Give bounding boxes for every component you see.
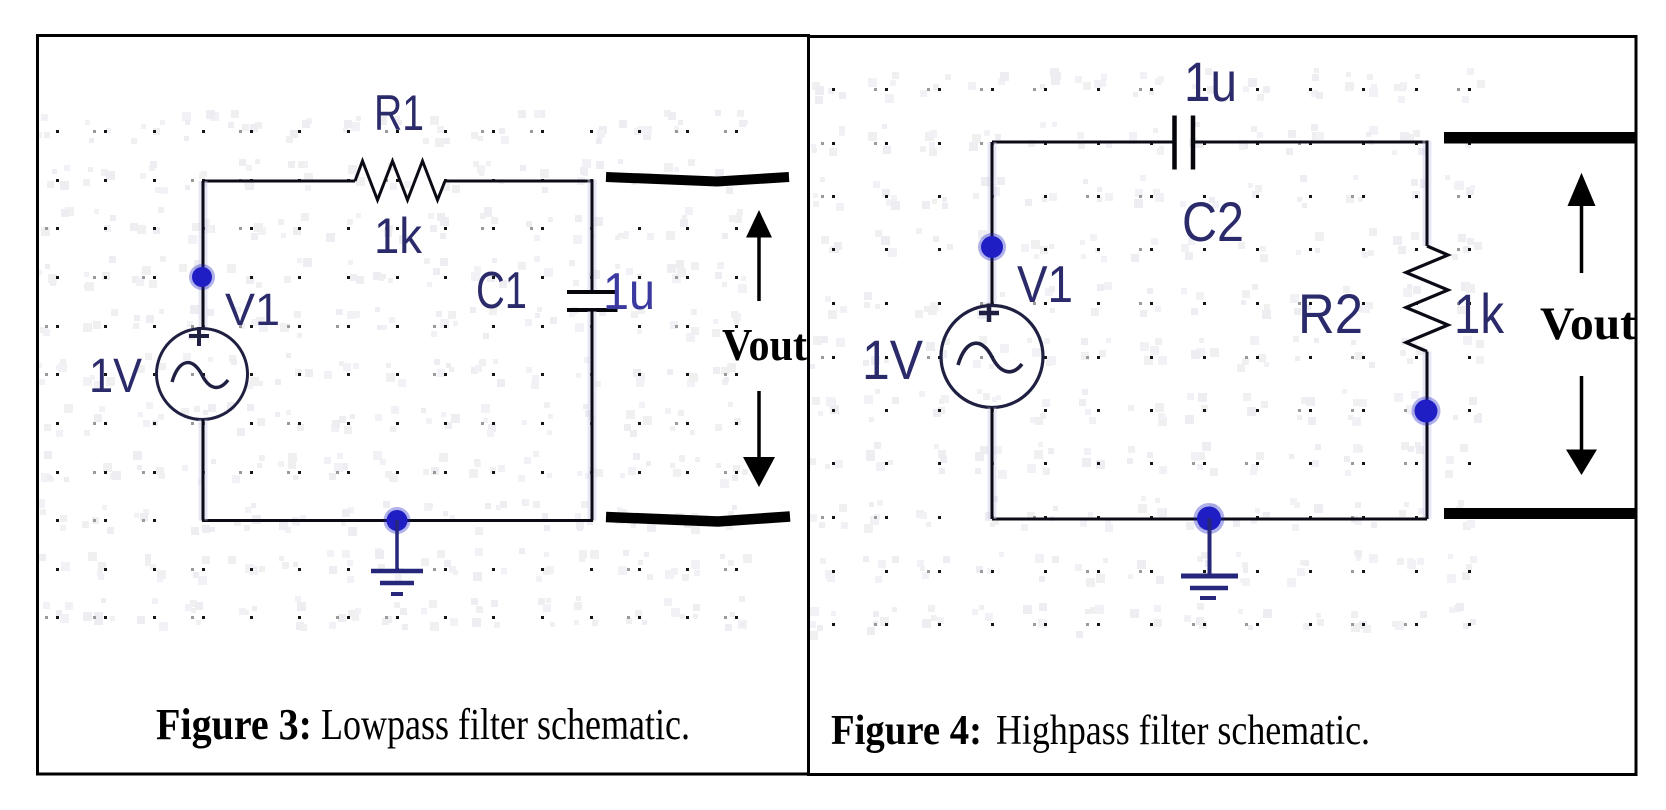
Vout top terminal bar (right) <box>1444 132 1636 144</box>
svg-text:1u: 1u <box>1184 50 1237 113</box>
wire: bottom segment <box>203 519 592 522</box>
svg-text:1u: 1u <box>603 263 655 321</box>
svg-text:C1: C1 <box>476 262 527 320</box>
Vout down arrow <box>743 391 775 487</box>
Vout top terminal bar <box>606 177 789 182</box>
Vout up arrow (right) <box>1568 173 1596 273</box>
Vout up arrow <box>746 210 772 301</box>
svg-text:V1: V1 <box>1017 256 1073 314</box>
svg-text:R1: R1 <box>374 85 424 141</box>
svg-text:1V: 1V <box>862 328 924 391</box>
svg-text:1k: 1k <box>374 208 423 264</box>
wire: right segment R2 to bottom corner <box>1423 352 1432 520</box>
panel frame Figure 3 <box>38 36 809 775</box>
wire: top-left segment V1 to R1 <box>203 180 355 183</box>
junction node V1 plus terminal (right) <box>978 233 1006 261</box>
svg-text:Vout: Vout <box>1540 298 1636 350</box>
wire: top-right segment C2 to output corner <box>1193 141 1427 144</box>
wire: top-right segment R1 to output corner <box>445 180 592 183</box>
capacitor C2 <box>1175 116 1194 170</box>
wire: right segment down to C1 <box>588 180 597 292</box>
wire: left segment top corner to node <box>199 181 208 330</box>
junction node V1 plus terminal <box>189 264 215 290</box>
wire: right segment C1 to bottom corner <box>588 311 597 521</box>
resistor R2 <box>1406 246 1448 352</box>
svg-text:R2: R2 <box>1298 282 1363 345</box>
junction node ground (right) <box>1194 503 1225 534</box>
wire: bottom segment <box>992 518 1427 521</box>
svg-text:Highpass filter schematic.: Highpass filter schematic. <box>996 708 1370 754</box>
wire: right segment down to R2 <box>1423 141 1432 247</box>
svg-text:Figure 4:: Figure 4: <box>831 708 982 754</box>
wire: left segment V1 to bottom corner <box>988 408 997 520</box>
Vout down arrow (right) <box>1566 376 1597 475</box>
Vout bottom terminal bar (right) <box>1444 508 1636 519</box>
svg-text:Vout: Vout <box>722 320 807 370</box>
svg-text:C2: C2 <box>1182 190 1244 253</box>
voltage source V1 (right) <box>941 304 1043 408</box>
ground symbol (right) <box>1181 518 1238 598</box>
wire: top-left segment V1 to C2 <box>992 141 1174 144</box>
svg-text:1k: 1k <box>1454 282 1505 345</box>
svg-text:V1: V1 <box>225 284 280 335</box>
wire: left segment V1 to bottom corner <box>199 420 208 521</box>
resistor R1 <box>355 161 445 200</box>
svg-text:Lowpass filter schematic.: Lowpass filter schematic. <box>321 700 690 749</box>
Vout bottom terminal bar <box>606 517 790 522</box>
capacitor C1 <box>567 292 618 310</box>
voltage source V1 <box>157 327 248 420</box>
svg-text:1V: 1V <box>89 350 142 403</box>
ground symbol <box>371 520 423 594</box>
panel frame Figure 4 <box>809 37 1637 775</box>
junction node ground <box>384 507 411 534</box>
wire: left segment top corner to node <box>988 142 997 307</box>
svg-text:Figure 3:: Figure 3: <box>156 700 312 749</box>
junction node R2 output <box>1412 397 1441 426</box>
